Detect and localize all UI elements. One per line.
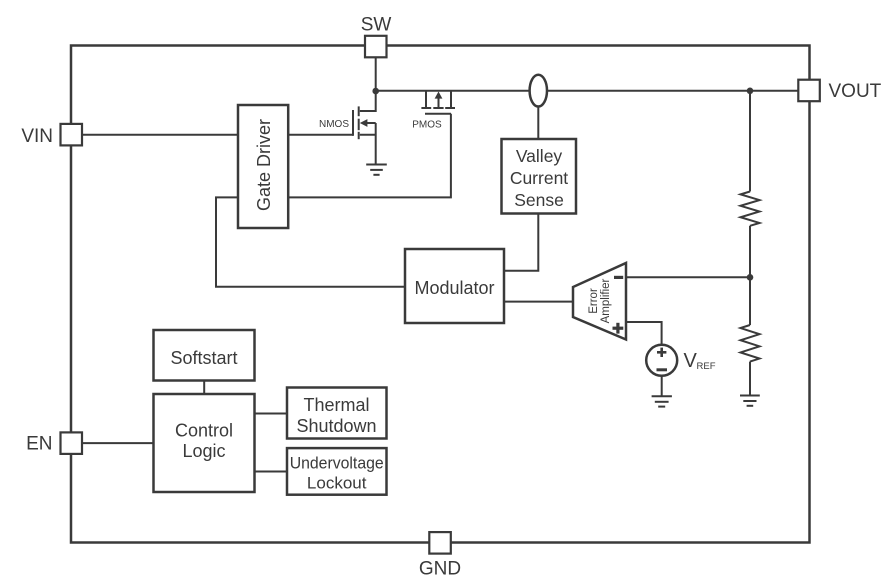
svg-text:REF: REF xyxy=(697,361,716,372)
ground (VREF) xyxy=(652,396,672,406)
wire Softstart to Control Logic xyxy=(203,381,205,395)
pin VOUT xyxy=(798,80,820,102)
wire EN to Control Logic xyxy=(82,442,154,444)
svg-text:PMOS: PMOS xyxy=(412,120,442,131)
svg-text:Shutdown: Shutdown xyxy=(296,416,376,436)
voltage source VREF xyxy=(646,345,677,376)
node SW junction xyxy=(372,88,379,95)
wire VOUT node to R1 xyxy=(749,91,751,192)
block Gate Driver xyxy=(238,105,288,228)
node feedback junction xyxy=(747,274,754,281)
block Softstart xyxy=(154,330,255,381)
svg-text:Sense: Sense xyxy=(514,190,564,210)
svg-text:Logic: Logic xyxy=(182,441,225,461)
wire VREF to ground xyxy=(661,376,663,396)
wire Gate Driver to Modulator xyxy=(216,197,405,286)
wire Modulator to Error Amplifier output xyxy=(504,301,573,303)
svg-text:Modulator: Modulator xyxy=(414,278,494,298)
svg-text:VIN: VIN xyxy=(21,126,53,147)
svg-text:Softstart: Softstart xyxy=(170,348,237,368)
label SW xyxy=(361,15,392,36)
label PMOS xyxy=(412,120,442,131)
block Valley Current Sense xyxy=(502,139,577,214)
ground (feedback divider) xyxy=(740,396,760,406)
svg-text:Lockout: Lockout xyxy=(307,473,367,492)
ground (NMOS source) xyxy=(366,165,387,175)
svg-text:GND: GND xyxy=(419,559,461,580)
block Control Logic xyxy=(154,394,255,492)
block Modulator xyxy=(405,249,504,323)
block Undervoltage Lockout xyxy=(287,448,387,495)
svg-text:Gate Driver: Gate Driver xyxy=(254,119,274,211)
wire Error Amplifier inverting input to feedback node xyxy=(626,276,750,278)
wire Gate Driver to PMOS gate xyxy=(288,114,451,198)
label VIN xyxy=(21,126,53,147)
wire Valley Current Sense to Modulator xyxy=(504,213,538,271)
transistor NMOS xyxy=(353,91,376,164)
wire feedback node to R2 xyxy=(749,277,751,325)
wire R1 to feedback node xyxy=(749,226,751,277)
svg-text:Control: Control xyxy=(175,421,233,441)
pin EN xyxy=(61,432,83,454)
wire SW node to VOUT pin xyxy=(376,90,799,92)
label EN xyxy=(26,433,52,454)
wire Control Logic to Undervoltage Lockout xyxy=(255,471,287,473)
resistor R1 (upper feedback) xyxy=(741,192,760,226)
svg-text:EN: EN xyxy=(26,433,52,454)
pin VIN xyxy=(61,124,83,145)
wire ellipse to Valley Current Sense xyxy=(537,107,539,139)
wire Gate Driver to NMOS gate xyxy=(288,134,353,136)
svg-text:SW: SW xyxy=(361,15,392,36)
op-amp Error Amplifier xyxy=(573,263,626,340)
pin SW xyxy=(365,36,387,58)
node VOUT junction xyxy=(747,88,754,95)
wire SW rail (SW pin down to node) xyxy=(375,57,377,91)
wire Error Amplifier non-inverting input to VREF xyxy=(626,322,662,345)
svg-text:Undervoltage: Undervoltage xyxy=(290,454,384,473)
svg-text:Current: Current xyxy=(510,168,568,188)
wire R2 to ground xyxy=(749,362,751,395)
label GND xyxy=(419,559,461,580)
IC boundary box xyxy=(71,46,810,543)
svg-text:Thermal: Thermal xyxy=(303,395,369,415)
wire Control Logic to Thermal Shutdown xyxy=(255,413,287,415)
resistor R2 (lower feedback) xyxy=(741,325,760,362)
svg-text:Amplifier: Amplifier xyxy=(600,278,612,323)
svg-text:NMOS: NMOS xyxy=(319,119,349,130)
label VOUT xyxy=(829,81,882,102)
wire VIN to Gate Driver xyxy=(82,134,238,136)
current sense element (ellipse on VOUT rail) xyxy=(530,75,547,107)
label NMOS xyxy=(319,119,349,130)
svg-text:VOUT: VOUT xyxy=(829,81,882,102)
svg-text:Error: Error xyxy=(588,288,600,314)
transistor PMOS xyxy=(421,91,455,114)
svg-text:V: V xyxy=(684,350,698,372)
label VREF xyxy=(684,350,716,372)
pin GND xyxy=(429,532,451,554)
block Thermal Shutdown xyxy=(287,388,387,439)
svg-text:Valley: Valley xyxy=(516,146,563,166)
